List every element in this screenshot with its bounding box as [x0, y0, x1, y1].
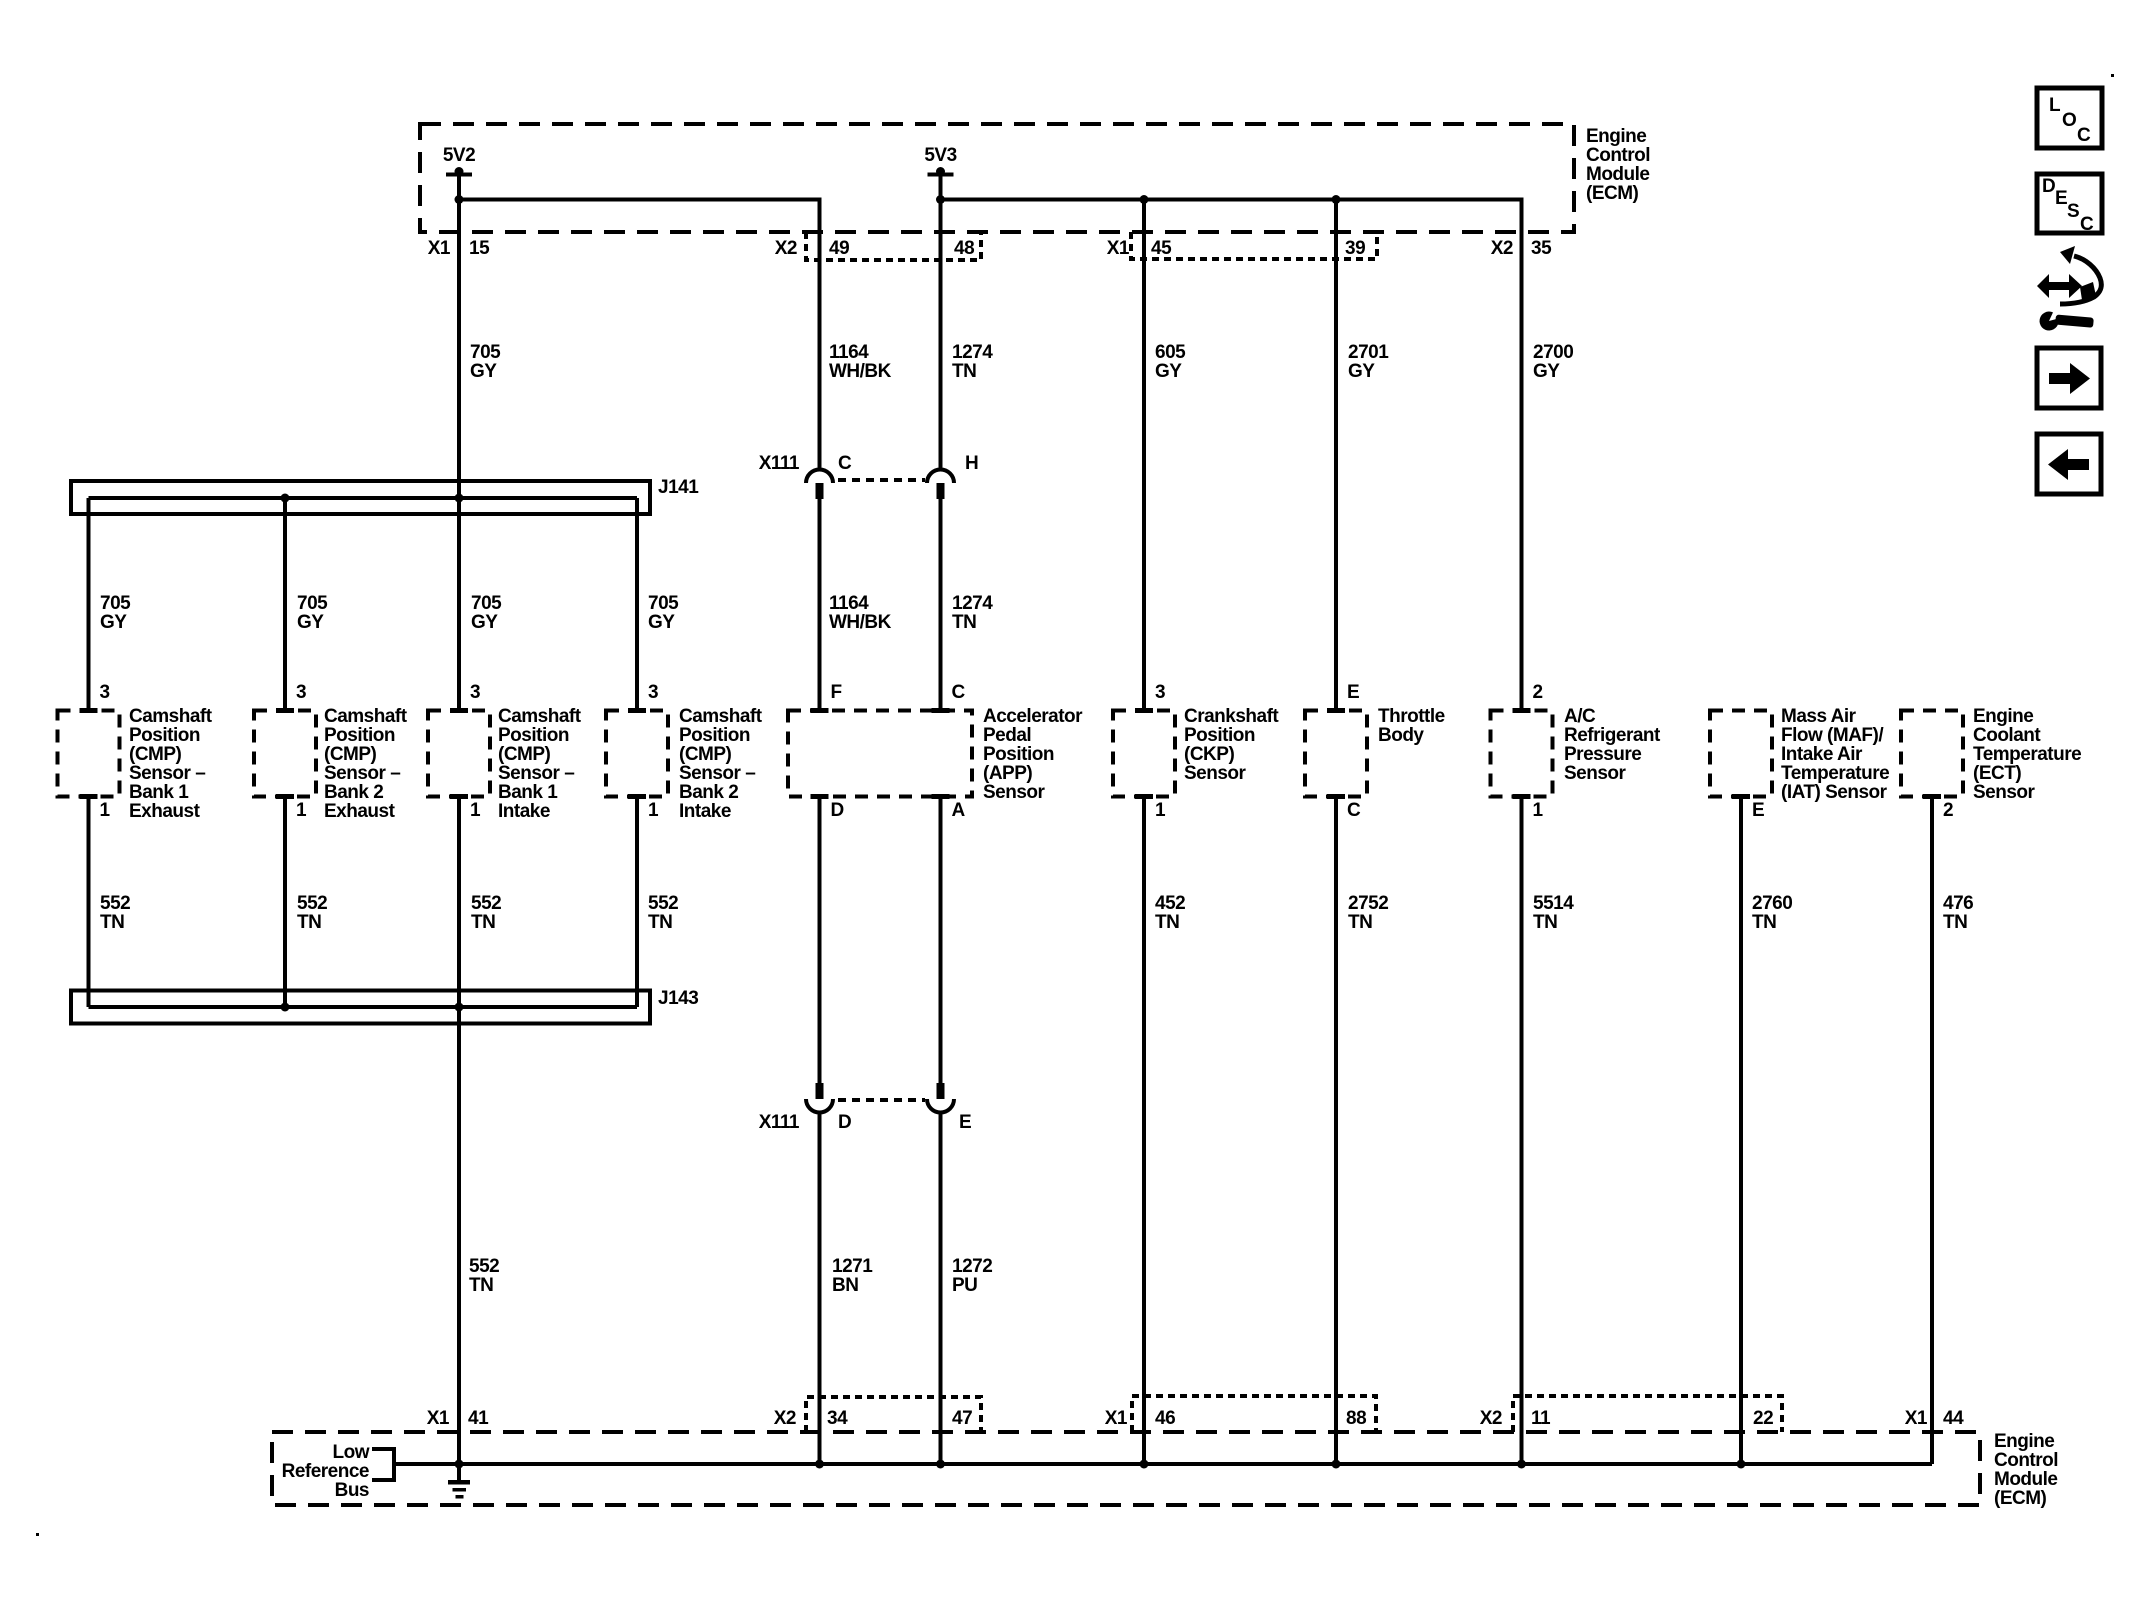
wire label 1274 TN (upper)	[952, 342, 993, 382]
wire label 476 TN	[1943, 893, 1973, 933]
ECM top pin labels X2 35	[1491, 238, 1552, 259]
node: junction 5V3/feed	[936, 195, 945, 204]
svg-text:GY: GY	[648, 612, 675, 633]
svg-text:TN: TN	[952, 361, 976, 382]
svg-text:GY: GY	[1533, 361, 1560, 382]
svg-text:Sensor: Sensor	[983, 782, 1046, 803]
svg-text:Camshaft: Camshaft	[498, 706, 582, 727]
svg-text:48: 48	[954, 238, 974, 259]
svg-text:Control: Control	[1586, 145, 1650, 166]
svg-text:WH/BK: WH/BK	[829, 612, 892, 633]
ECM bottom pin labels X1 44	[1905, 1408, 1964, 1429]
svg-text:X111: X111	[759, 1112, 800, 1133]
svg-text:E: E	[2055, 188, 2067, 209]
svg-text:Intake Air: Intake Air	[1781, 744, 1863, 765]
wire label 1274 TN (middle)	[952, 593, 993, 633]
svg-text:D: D	[831, 800, 844, 821]
svg-text:35: 35	[1531, 238, 1552, 259]
svg-text:Coolant: Coolant	[1973, 725, 2041, 746]
node: junction feed/pin39	[1332, 195, 1341, 204]
X111 lower dashed connector tie	[838, 1098, 925, 1102]
svg-text:44: 44	[1943, 1408, 1964, 1429]
svg-text:X2: X2	[774, 1408, 796, 1429]
svg-text:X1: X1	[1107, 238, 1130, 259]
svg-text:2701: 2701	[1348, 342, 1389, 363]
svg-text:(ECM): (ECM)	[1994, 1488, 2047, 1509]
wire label 552 TN (col4)	[648, 893, 678, 933]
svg-text:Pedal: Pedal	[983, 725, 1031, 746]
wire label 2701 GY	[1348, 342, 1389, 382]
svg-text:2: 2	[1533, 682, 1543, 703]
wire: pin 45 to CKP sensor pin 3 (605 GY)	[1142, 200, 1146, 712]
svg-text:Throttle: Throttle	[1378, 706, 1445, 727]
svg-text:(CMP): (CMP)	[129, 744, 182, 765]
svg-text:TN: TN	[648, 912, 672, 933]
svg-text:Sensor: Sensor	[1973, 782, 2036, 803]
svg-text:Sensor –: Sensor –	[129, 763, 205, 784]
svg-text:GY: GY	[100, 612, 127, 633]
wire: J141 to CMP B2 Intake pin 3	[635, 498, 639, 711]
svg-text:3: 3	[1155, 682, 1165, 703]
svg-text:22: 22	[1753, 1408, 1773, 1429]
ECM top pin labels X2 49 48 + dotted connector box	[775, 232, 981, 260]
wire: CKP pin 1 to ECM X1-46 (452 TN)	[1142, 796, 1146, 1464]
svg-text:Camshaft: Camshaft	[679, 706, 763, 727]
svg-text:GY: GY	[1348, 361, 1375, 382]
wire label 552 TN (col3)	[471, 893, 501, 933]
node: junction bus/47	[936, 1460, 945, 1469]
svg-text:2700: 2700	[1533, 342, 1573, 363]
sensor: Throttle Body	[1305, 682, 1445, 821]
ECM bottom pin labels X1 41	[427, 1408, 489, 1429]
svg-text:X1: X1	[427, 1408, 450, 1429]
wire: CMP B1 Exhaust pin 1 to J143 (552 TN)	[87, 796, 91, 1007]
svg-text:552: 552	[469, 1256, 499, 1277]
ECM bottom pin labels X1 46 88 + dotted connector box	[1105, 1396, 1376, 1432]
svg-text:Sensor: Sensor	[1564, 763, 1627, 784]
svg-text:2760: 2760	[1752, 893, 1792, 914]
wire: CMP B1 Intake pin 1 through J143 to ECM X1-41 (552 TN)	[457, 796, 461, 1464]
svg-text:C: C	[952, 682, 966, 703]
svg-text:TN: TN	[100, 912, 124, 933]
ECM bottom pin labels X2 34 47 + dotted connector box	[774, 1397, 981, 1432]
node: junction bus/88	[1332, 1460, 1341, 1469]
svg-text:X1: X1	[1905, 1408, 1928, 1429]
svg-text:Module: Module	[1994, 1469, 2058, 1490]
svg-text:X1: X1	[428, 238, 451, 259]
svg-text:GY: GY	[1155, 361, 1182, 382]
svg-text:1274: 1274	[952, 593, 993, 614]
svg-text:Bank 2: Bank 2	[324, 782, 383, 803]
svg-text:A/C: A/C	[1564, 706, 1596, 727]
svg-text:Sensor –: Sensor –	[498, 763, 574, 784]
wire label 605 GY	[1155, 342, 1186, 382]
svg-text:552: 552	[471, 893, 501, 914]
svg-text:(ECT): (ECT)	[1973, 763, 2021, 784]
wire label 705 GY (col3)	[471, 593, 502, 633]
svg-text:1: 1	[1155, 800, 1166, 821]
wire label 2760 TN	[1752, 893, 1792, 933]
node: J143 junction col2	[281, 1003, 290, 1012]
wire label 705 GY (col1)	[100, 593, 131, 633]
svg-text:Module: Module	[1586, 164, 1650, 185]
connector X111 cavity H (inline, upper)	[927, 453, 978, 499]
svg-text:1: 1	[1533, 800, 1544, 821]
svg-text:1: 1	[470, 800, 481, 821]
svg-text:C: C	[838, 453, 852, 474]
wire: ECM X1-15 down to J141 (705 GY)	[457, 176, 461, 711]
sensor: Engine Coolant Temperature (ECT) Sensor	[1901, 706, 2081, 821]
svg-text:45: 45	[1151, 238, 1172, 259]
svg-text:TN: TN	[469, 1275, 493, 1296]
svg-text:TN: TN	[1348, 912, 1372, 933]
svg-text:J143: J143	[658, 988, 698, 1009]
sensor: Accelerator Pedal Position (APP) Sensor	[788, 682, 1083, 821]
svg-text:Sensor –: Sensor –	[324, 763, 400, 784]
svg-text:(CMP): (CMP)	[324, 744, 377, 765]
svg-text:705: 705	[648, 593, 679, 614]
svg-text:X2: X2	[1480, 1408, 1502, 1429]
svg-text:X1: X1	[1105, 1408, 1128, 1429]
svg-text:E: E	[959, 1112, 971, 1133]
svg-text:47: 47	[952, 1408, 972, 1429]
wire label 452 TN	[1155, 893, 1185, 933]
wire: Throttle Body pin C to ECM 88 (2752 TN)	[1334, 796, 1338, 1464]
wire: J141 to CMP B1 Exhaust pin 3	[87, 498, 91, 711]
wire: MAF/IAT pin E to ECM 22 (2760 TN)	[1739, 796, 1743, 1464]
svg-text:F: F	[831, 682, 842, 703]
speck	[2111, 74, 2114, 77]
sensor: Camshaft Position (CMP) Sensor - Bank 2 Exhaust	[254, 682, 408, 822]
wire: APP pin D to X111-D (1271 BN)	[818, 796, 822, 1083]
svg-text:39: 39	[1345, 238, 1365, 259]
wire: APP pin A to X111-E (1272 PU)	[939, 796, 943, 1083]
wire label 5514 TN	[1533, 893, 1574, 933]
svg-text:1: 1	[100, 800, 111, 821]
svg-text:552: 552	[297, 893, 327, 914]
svg-text:1: 1	[648, 800, 659, 821]
svg-text:S: S	[2067, 201, 2079, 222]
svg-text:(IAT) Sensor: (IAT) Sensor	[1781, 782, 1888, 803]
svg-text:1164: 1164	[829, 593, 869, 614]
svg-text:1274: 1274	[952, 342, 993, 363]
svg-text:TN: TN	[1752, 912, 1776, 933]
svg-text:Flow (MAF)/: Flow (MAF)/	[1781, 725, 1884, 746]
connector X111 cavity D (inline, lower)	[759, 1083, 852, 1133]
node: junction bus/34	[815, 1460, 824, 1469]
icon: harness routing (double arrow + wrench)	[2037, 246, 2101, 331]
svg-text:Camshaft: Camshaft	[129, 706, 213, 727]
X111 upper dashed connector tie	[838, 478, 925, 482]
ground G at ECM X1-41	[448, 1464, 470, 1499]
svg-text:552: 552	[100, 893, 130, 914]
svg-text:2752: 2752	[1348, 893, 1388, 914]
sensor: Crankshaft Position (CKP) Sensor	[1113, 682, 1279, 821]
svg-text:Sensor: Sensor	[1184, 763, 1247, 784]
svg-text:TN: TN	[952, 612, 976, 633]
svg-text:Refrigerant: Refrigerant	[1564, 725, 1661, 746]
wire label 552 TN (lower)	[469, 1256, 499, 1296]
svg-text:705: 705	[100, 593, 131, 614]
node: J143 junction col3	[455, 1003, 464, 1012]
svg-text:TN: TN	[1155, 912, 1179, 933]
svg-text:GY: GY	[297, 612, 324, 633]
svg-text:Pressure: Pressure	[1564, 744, 1641, 765]
svg-text:H: H	[965, 453, 978, 474]
svg-text:E: E	[1752, 800, 1764, 821]
svg-text:Intake: Intake	[679, 801, 731, 822]
svg-text:1: 1	[296, 800, 307, 821]
Engine Control Module (ECM) top dashed box	[420, 124, 1650, 232]
wire label 1164 WH/BK (middle)	[829, 593, 892, 633]
sensor: Camshaft Position (CMP) Sensor - Bank 2 Intake	[606, 682, 763, 822]
connector X111 cavity E (inline, lower)	[927, 1083, 971, 1133]
svg-text:A: A	[952, 800, 966, 821]
svg-text:3: 3	[648, 682, 658, 703]
node: junction bus/11	[1517, 1460, 1526, 1469]
wire label 1271 BN (lower)	[832, 1256, 873, 1296]
svg-text:(CMP): (CMP)	[498, 744, 551, 765]
svg-text:C: C	[2080, 214, 2094, 235]
svg-text:(APP): (APP)	[983, 763, 1032, 784]
svg-text:5V2: 5V2	[443, 145, 475, 166]
wire: pin 39 to Throttle Body pin E (2701 GY)	[1334, 200, 1338, 712]
wire: A/C sensor pin 1 to ECM X2-11 (5514 TN)	[1520, 796, 1524, 1464]
svg-text:49: 49	[829, 238, 849, 259]
svg-text:Exhaust: Exhaust	[324, 801, 396, 822]
svg-text:E: E	[1347, 682, 1359, 703]
power node 5V3	[924, 145, 956, 470]
svg-text:41: 41	[468, 1408, 489, 1429]
svg-text:Accelerator: Accelerator	[983, 706, 1083, 727]
ECM top pin labels X1 15	[428, 238, 490, 259]
wire: CMP B2 Exhaust pin 1 to J143 (552 TN)	[283, 796, 287, 1007]
svg-text:Intake: Intake	[498, 801, 550, 822]
svg-text:1164: 1164	[829, 342, 869, 363]
wire: X111-E to ECM 47	[939, 1113, 943, 1464]
svg-text:705: 705	[470, 342, 501, 363]
icon: DESC button	[2037, 174, 2102, 235]
svg-text:3: 3	[100, 682, 110, 703]
svg-text:(CKP): (CKP)	[1184, 744, 1234, 765]
svg-text:Mass Air: Mass Air	[1781, 706, 1857, 727]
wire label 552 TN (col2)	[297, 893, 327, 933]
power node 5V2	[443, 145, 475, 200]
wire label 705 GY (col2)	[297, 593, 328, 633]
wire: CMP B2 Intake pin 1 to J143 (552 TN)	[635, 796, 639, 1007]
svg-text:Engine: Engine	[1973, 706, 2033, 727]
svg-text:Engine: Engine	[1586, 126, 1646, 147]
svg-text:TN: TN	[1533, 912, 1557, 933]
svg-text:705: 705	[297, 593, 328, 614]
svg-text:GY: GY	[471, 612, 498, 633]
splice pack J143	[71, 988, 698, 1024]
net label: Low Reference Bus	[282, 1442, 394, 1501]
svg-text:GY: GY	[470, 361, 497, 382]
ECM top pin labels X1 45 39 + dotted connector box	[1107, 232, 1377, 259]
svg-text:Bank 1: Bank 1	[129, 782, 189, 803]
svg-text:88: 88	[1346, 1408, 1366, 1429]
wire: X111-D to ECM X2-34	[818, 1113, 822, 1464]
svg-text:L: L	[2049, 95, 2061, 116]
svg-text:Crankshaft: Crankshaft	[1184, 706, 1279, 727]
svg-text:552: 552	[648, 893, 678, 914]
icon: next-page arrow button	[2037, 348, 2101, 408]
ECM bottom pin labels X2 11 22 + dotted connector box	[1480, 1396, 1782, 1432]
sensor: Camshaft Position (CMP) Sensor - Bank 1 Intake	[428, 682, 582, 822]
svg-text:705: 705	[471, 593, 502, 614]
svg-text:Camshaft: Camshaft	[324, 706, 408, 727]
svg-text:D: D	[838, 1112, 851, 1133]
svg-text:15: 15	[469, 238, 490, 259]
svg-text:Position: Position	[324, 725, 395, 746]
svg-text:TN: TN	[297, 912, 321, 933]
svg-text:34: 34	[827, 1408, 848, 1429]
svg-text:5V3: 5V3	[924, 145, 956, 166]
svg-text:Bank 2: Bank 2	[679, 782, 738, 803]
svg-text:Low: Low	[333, 1442, 370, 1463]
svg-text:WH/BK: WH/BK	[829, 361, 892, 382]
svg-text:Body: Body	[1378, 725, 1424, 746]
node: junction bus/ground	[455, 1460, 464, 1469]
svg-text:J141: J141	[658, 477, 699, 498]
svg-text:476: 476	[1943, 893, 1973, 914]
svg-text:1271: 1271	[832, 1256, 873, 1277]
node: J141 junction col2	[281, 494, 290, 503]
svg-text:Control: Control	[1994, 1450, 2058, 1471]
wire: Low Reference Bus	[394, 1462, 1932, 1466]
svg-text:Position: Position	[1184, 725, 1255, 746]
sensor: A/C Refrigerant Pressure Sensor	[1491, 682, 1662, 821]
wire label 2700 GY	[1533, 342, 1573, 382]
wire: 5V3 feed bus to pin X2-35 (A/C sensor)	[941, 200, 1522, 712]
wire: 5V2 feed bus to pin X2-49	[459, 200, 820, 471]
svg-text:11: 11	[1531, 1408, 1551, 1429]
svg-text:46: 46	[1155, 1408, 1175, 1429]
wire: X111-H to APP sensor pin C (1274 TN)	[939, 499, 943, 711]
svg-text:605: 605	[1155, 342, 1186, 363]
svg-text:Reference: Reference	[282, 1461, 369, 1482]
wire: ECT pin 2 to ECM X1-44 (476 TN)	[1930, 796, 1934, 1464]
wire label 705 GY (col4)	[648, 593, 679, 633]
svg-text:BN: BN	[832, 1275, 858, 1296]
svg-text:Bank 1: Bank 1	[498, 782, 558, 803]
svg-text:TN: TN	[1943, 912, 1967, 933]
node: junction feed/pin45	[1140, 195, 1149, 204]
svg-text:C: C	[1347, 800, 1361, 821]
svg-text:Bus: Bus	[335, 1480, 369, 1501]
svg-text:PU: PU	[952, 1275, 977, 1296]
connector X111 cavity C (inline, upper)	[759, 453, 852, 499]
node: J141 junction col3	[455, 494, 464, 503]
node: junction 5V2/feed	[455, 195, 464, 204]
wire label 2752 TN	[1348, 893, 1388, 933]
sensor: Mass Air Flow (MAF)/Intake Air Temperature (IAT) Sensor	[1710, 706, 1889, 821]
svg-text:(CMP): (CMP)	[679, 744, 732, 765]
svg-text:1272: 1272	[952, 1256, 992, 1277]
wire label 705 GY (ECM to J141)	[470, 342, 501, 382]
svg-text:Position: Position	[129, 725, 200, 746]
wire label 1164 WH/BK (upper)	[829, 342, 892, 382]
svg-text:Sensor –: Sensor –	[679, 763, 755, 784]
svg-text:Exhaust: Exhaust	[129, 801, 201, 822]
svg-text:Temperature: Temperature	[1973, 744, 2081, 765]
svg-text:X111: X111	[759, 453, 800, 474]
splice pack J141	[71, 477, 699, 514]
icon: LOC button	[2037, 88, 2102, 148]
wire label 552 TN (col1)	[100, 893, 130, 933]
svg-text:3: 3	[470, 682, 480, 703]
svg-text:Position: Position	[983, 744, 1054, 765]
wire: J141 to CMP B2 Exhaust pin 3	[283, 498, 287, 711]
svg-text:X2: X2	[775, 238, 797, 259]
svg-text:5514: 5514	[1533, 893, 1574, 914]
svg-text:452: 452	[1155, 893, 1185, 914]
sensor: Camshaft Position (CMP) Sensor - Bank 1 Exhaust	[58, 682, 213, 822]
Engine Control Module (ECM) bottom dashed box	[272, 1431, 2058, 1509]
svg-text:C: C	[2077, 125, 2091, 146]
wire label 1272 PU (lower)	[952, 1256, 992, 1296]
wire: X111-C to APP sensor pin F (1164 WH/BK)	[818, 499, 822, 711]
svg-text:X2: X2	[1491, 238, 1513, 259]
icon: previous-page arrow button	[2037, 434, 2101, 494]
node: junction bus/46	[1140, 1460, 1149, 1469]
svg-text:(ECM): (ECM)	[1586, 183, 1639, 204]
svg-text:Position: Position	[679, 725, 750, 746]
node: junction bus/22	[1737, 1460, 1746, 1469]
svg-text:TN: TN	[471, 912, 495, 933]
svg-text:D: D	[2042, 176, 2055, 197]
svg-text:2: 2	[1943, 800, 1953, 821]
svg-text:Temperature: Temperature	[1781, 763, 1889, 784]
svg-text:O: O	[2062, 110, 2076, 131]
svg-text:3: 3	[296, 682, 306, 703]
svg-text:Position: Position	[498, 725, 569, 746]
svg-text:Engine: Engine	[1994, 1431, 2054, 1452]
